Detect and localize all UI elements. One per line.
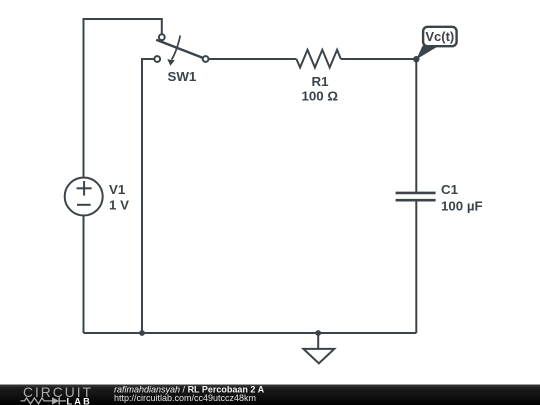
svg-text:http://circuitlab.com/cc49utcc: http://circuitlab.com/cc49utccz48km: [114, 393, 256, 403]
wire: [84, 19, 162, 177]
wire: [415, 59, 417, 192]
node Vc(t): [416, 27, 456, 60]
junction: [139, 330, 145, 336]
svg-text:Vc(t): Vc(t): [425, 29, 454, 44]
resistor R1: [296, 50, 340, 68]
svg-text:C1: C1: [441, 182, 459, 197]
ground: [303, 333, 334, 363]
wire: [84, 332, 417, 334]
wire: [209, 58, 297, 60]
svg-text:100 µF: 100 µF: [441, 198, 483, 213]
voltage source V1: [65, 178, 103, 216]
svg-text:1 V: 1 V: [109, 197, 129, 212]
svg-text:SW1: SW1: [168, 69, 197, 84]
wire: [142, 59, 154, 333]
svg-text:LAB: LAB: [67, 396, 92, 405]
capacitor C1: [396, 193, 436, 200]
svg-text:R1: R1: [312, 74, 330, 89]
svg-text:100 Ω: 100 Ω: [302, 89, 339, 104]
logo CIRCUIT LAB: [21, 385, 93, 405]
switch SW1: [154, 34, 208, 66]
wire: [341, 58, 417, 60]
junction: [315, 330, 321, 336]
wire: [83, 216, 85, 334]
junction: [413, 56, 419, 62]
footer bar: [0, 385, 540, 405]
svg-text:V1: V1: [109, 182, 126, 197]
wire: [415, 201, 417, 333]
